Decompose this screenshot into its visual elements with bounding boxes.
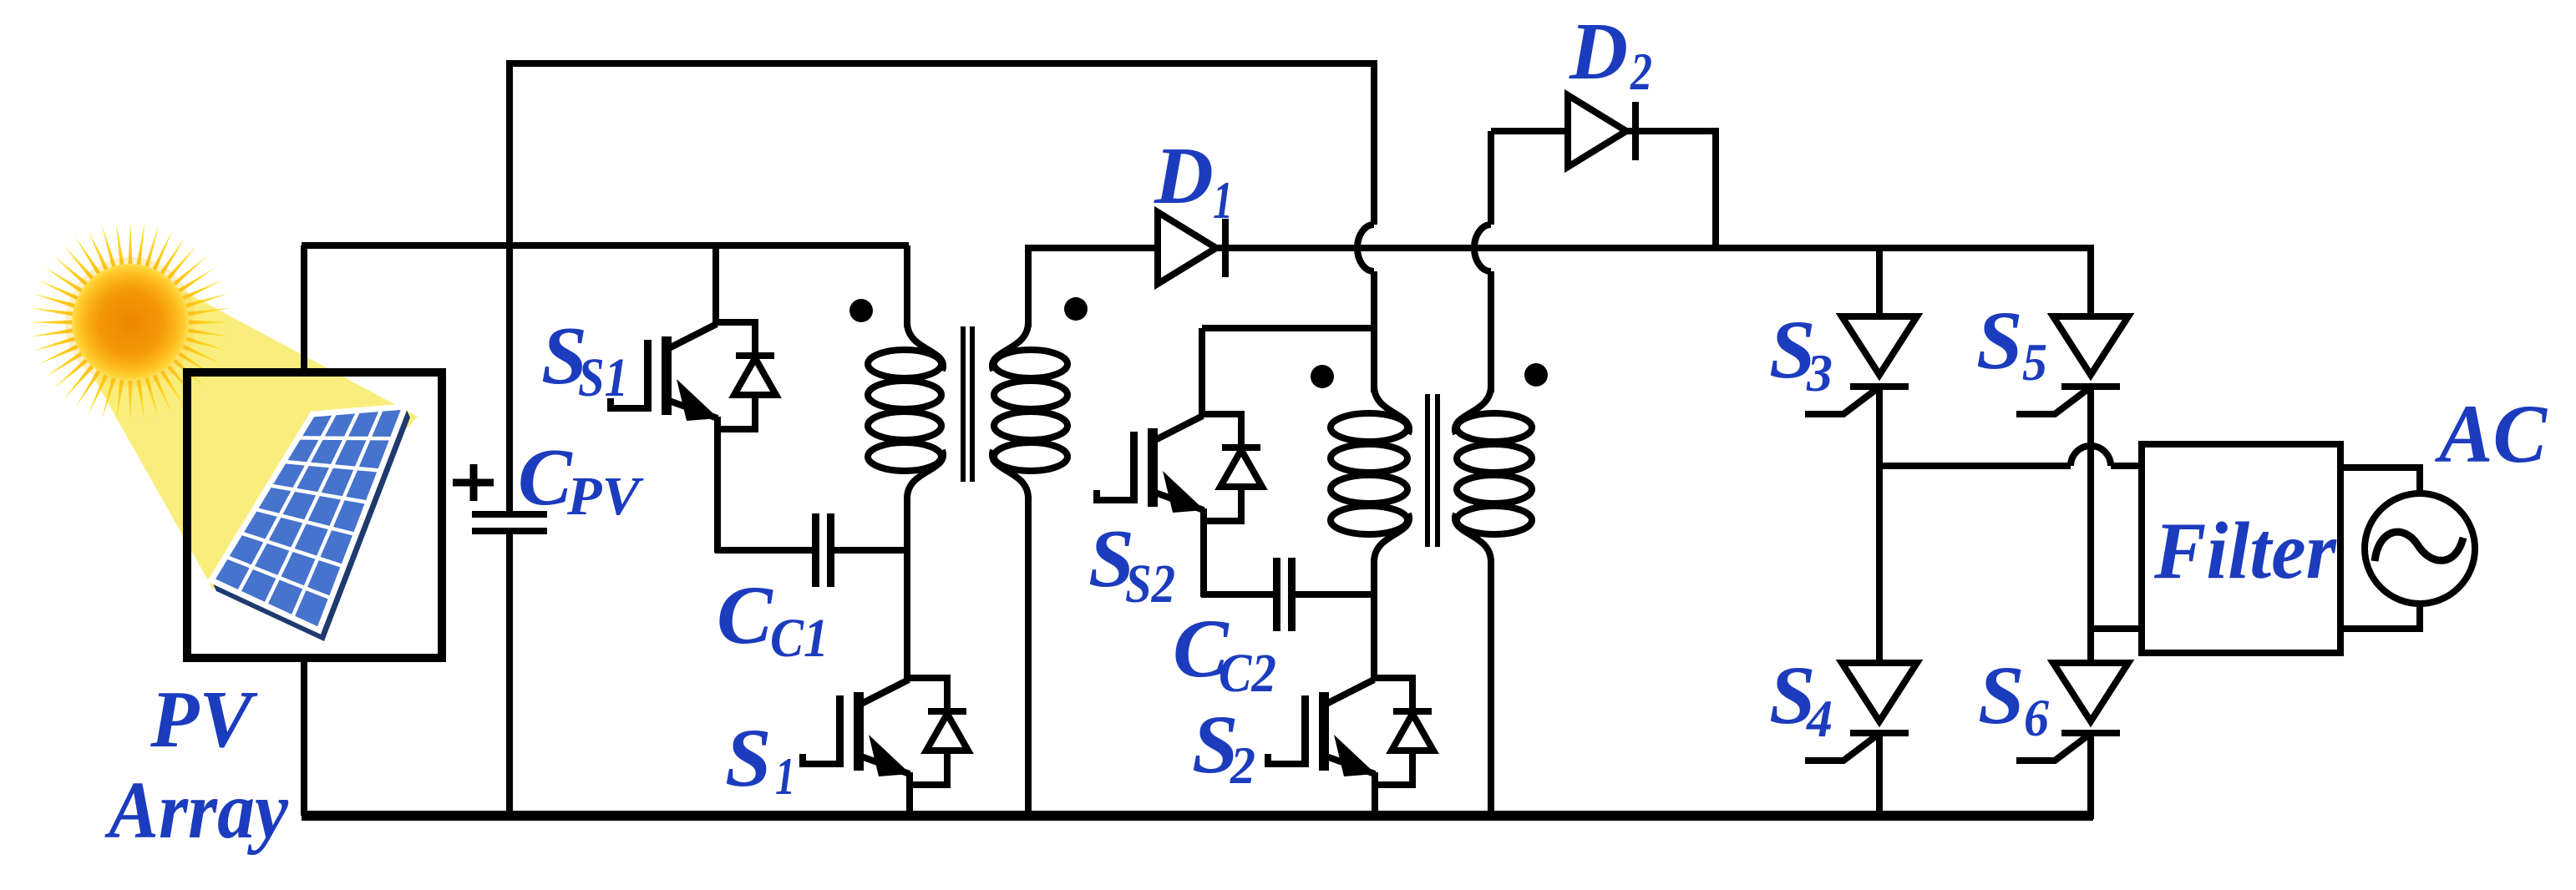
label D_1 xyxy=(1154,131,1233,230)
transformer T1 core xyxy=(963,326,972,482)
node T2 primary dot xyxy=(1311,365,1334,388)
wire T2 primary hop xyxy=(1357,225,1374,271)
label S_2 xyxy=(1192,698,1255,795)
svg-text:6: 6 xyxy=(2024,688,2049,747)
svg-text:2: 2 xyxy=(1230,736,1255,795)
transformer T2 primary lower lead xyxy=(1371,559,1377,680)
transformer T2 secondary lower lead xyxy=(1488,559,1494,816)
svg-text:C: C xyxy=(518,432,573,522)
label Array xyxy=(104,766,288,855)
svg-text:5: 5 xyxy=(2022,332,2047,392)
label C_C1 xyxy=(717,569,829,669)
transistor S_S1 xyxy=(611,322,776,429)
svg-text:C1: C1 xyxy=(770,608,829,669)
svg-text:S2: S2 xyxy=(1125,554,1175,614)
svg-text:Array: Array xyxy=(104,766,288,855)
wire C_C2 left xyxy=(1201,591,1276,598)
transformer T1 primary lower lead xyxy=(904,496,910,680)
svg-text:C: C xyxy=(717,569,773,661)
transistor S_1 xyxy=(803,678,968,785)
wire T2 primary upper lead xyxy=(1371,61,1377,225)
wire output rail xyxy=(1025,245,2093,251)
node T1 secondary dot xyxy=(1064,297,1088,321)
wire D_2 branch right xyxy=(1712,128,1719,248)
wire C_PV branch upper xyxy=(506,61,513,513)
wire S_S1 collector xyxy=(712,245,719,325)
diode D_1 xyxy=(1158,212,1225,284)
transformer T1 secondary winding xyxy=(992,322,1067,498)
filter box xyxy=(2142,444,2340,653)
wire S_S2 branch xyxy=(1202,325,1377,331)
label S_3 xyxy=(1769,303,1833,402)
wire T2 secondary hop xyxy=(1474,225,1491,271)
transformer T2 primary winding xyxy=(1331,386,1409,562)
svg-text:S: S xyxy=(725,711,772,804)
wire bridge mid to filter xyxy=(2111,463,2145,469)
wire bridge right leg lower xyxy=(2087,733,2094,819)
wire bridge left leg lower xyxy=(1876,733,1883,816)
PV panel xyxy=(211,407,410,641)
wire top rail xyxy=(506,60,1377,67)
label AC xyxy=(2434,387,2548,480)
label S_S2 xyxy=(1088,513,1175,614)
wire filter lower tap xyxy=(2091,625,2145,632)
label S_5 xyxy=(1976,294,2047,392)
wire bridge right leg upper xyxy=(2087,245,2094,319)
wire C_PV branch lower xyxy=(506,533,513,816)
wire bridge right leg mid1 xyxy=(2087,387,2094,665)
label D_2 xyxy=(1569,7,1652,101)
wire S_S2 collector xyxy=(1199,328,1205,417)
label S_1 xyxy=(725,711,795,806)
PV array box xyxy=(187,372,442,658)
wire C_C1 left xyxy=(715,547,815,554)
transistor S_2 xyxy=(1268,678,1433,785)
capacitor C_PV xyxy=(472,511,547,534)
capacitor C_C1 xyxy=(812,513,834,587)
thyristor S_4 xyxy=(1805,663,1917,761)
wire S_S2 emitter xyxy=(1200,508,1207,597)
diode D_2 xyxy=(1568,95,1635,167)
label Filter xyxy=(2153,506,2337,596)
wire C_C2 right xyxy=(1294,591,1377,598)
wire AC bottom xyxy=(2340,601,2420,629)
node PV+ rail xyxy=(302,242,909,249)
wire bridge mid xyxy=(1879,463,2071,469)
label PV xyxy=(150,675,258,764)
wire PV bottom lead xyxy=(301,658,307,816)
svg-text:4: 4 xyxy=(1806,689,1833,748)
svg-text:1: 1 xyxy=(775,746,795,806)
label C_C2 xyxy=(1173,602,1276,704)
thyristor S_6 xyxy=(2016,663,2128,761)
transformer T1 secondary lower lead xyxy=(1025,496,1032,816)
svg-text:S: S xyxy=(1978,649,2025,741)
wire T2 secondary upper lead xyxy=(1488,131,1494,225)
transformer T1 primary winding xyxy=(868,322,943,498)
svg-text:S1: S1 xyxy=(578,347,628,408)
sun xyxy=(28,220,232,424)
wire S_S1 emitter xyxy=(714,417,721,553)
transistor S_S2 xyxy=(1097,414,1262,521)
thyristor S_5 xyxy=(2016,316,2128,414)
transformer T1 primary lead xyxy=(904,245,910,327)
svg-text:D: D xyxy=(1569,7,1628,96)
svg-text:AC: AC xyxy=(2434,387,2548,480)
wire bridge left leg middle xyxy=(1876,387,1883,665)
wire AC top xyxy=(2340,468,2420,496)
svg-text:Filter: Filter xyxy=(2153,506,2337,596)
svg-text:D: D xyxy=(1154,131,1214,221)
AC source xyxy=(2365,493,2475,604)
wire T2 secondary lead xyxy=(1488,271,1494,392)
capacitor C_C2 xyxy=(1273,558,1296,631)
svg-text:3: 3 xyxy=(1806,343,1833,402)
sunlight beam xyxy=(94,276,418,603)
wire bridge mid hop xyxy=(2071,446,2111,466)
svg-text:C2: C2 xyxy=(1219,643,1276,704)
svg-text:2: 2 xyxy=(1630,42,1652,101)
wire C_C1 right xyxy=(833,547,910,554)
transformer T2 secondary winding xyxy=(1455,386,1532,562)
transformer T1 secondary lead xyxy=(1025,248,1032,327)
label S_4 xyxy=(1769,649,1833,748)
transformer T2 core xyxy=(1427,394,1438,547)
label C_PV xyxy=(518,432,644,527)
wire PV top lead xyxy=(301,245,307,372)
thyristor S_3 xyxy=(1805,316,1917,414)
wire bridge left leg upper xyxy=(1876,248,1883,319)
wire bottom rail xyxy=(302,811,2093,821)
wire D_2 branch left xyxy=(1491,128,1716,134)
label S_6 xyxy=(1978,649,2049,747)
svg-text:1: 1 xyxy=(1213,170,1233,230)
svg-text:PV: PV xyxy=(150,675,258,764)
plus sign xyxy=(453,464,494,501)
wire S_1 emitter xyxy=(906,772,913,816)
wire S_2 emitter xyxy=(1372,772,1378,816)
svg-text:PV: PV xyxy=(566,466,644,527)
node T1 primary dot xyxy=(849,299,873,322)
wire T2 primary lead xyxy=(1371,271,1377,392)
node T2 secondary dot xyxy=(1524,363,1548,387)
svg-text:S: S xyxy=(1976,294,2023,387)
label S_S1 xyxy=(541,311,628,408)
